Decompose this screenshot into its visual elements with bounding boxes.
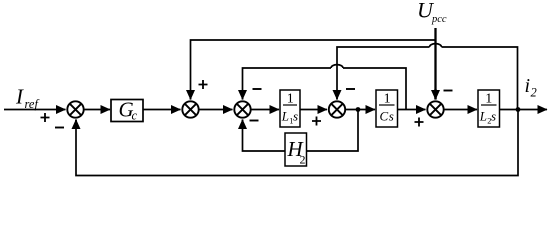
- wire Upcc branch top line to S2: [191, 40, 436, 100]
- svg-text:pcc: pcc: [431, 14, 447, 25]
- summing junction S4: [329, 101, 345, 117]
- wire S4 to Cs with node: [346, 109, 375, 111]
- sign - at S3 top: [253, 88, 262, 90]
- sign - at S3 bottom: [250, 120, 259, 122]
- svg-text:1: 1: [287, 92, 294, 107]
- svg-text:ref: ref: [25, 97, 40, 111]
- node after S4: [356, 107, 361, 112]
- wire input Iref to S1: [4, 109, 66, 111]
- wire L2s to output i2: [500, 109, 548, 111]
- node i2: [516, 107, 521, 112]
- block 1/Cs: [376, 90, 398, 127]
- hop over Upcc vertical: [430, 44, 442, 47]
- svg-text:2: 2: [531, 86, 537, 100]
- wire H2 loop from node to H2 and S3 bottom: [243, 110, 359, 152]
- block 1/L1s: [280, 90, 300, 127]
- block 1/L2s: [478, 90, 500, 127]
- sign - at S1 bottom: [55, 127, 64, 129]
- sign + at S1 left: [41, 113, 50, 122]
- wire L1s to S4: [300, 109, 327, 111]
- svg-text:1: 1: [485, 92, 492, 107]
- wire i2 feedback line A to S4 top: [337, 47, 518, 110]
- sign + at S5 left: [415, 118, 424, 127]
- sign + at S4 left: [312, 117, 321, 126]
- svg-text:2: 2: [300, 153, 306, 167]
- svg-text:C: C: [380, 109, 389, 124]
- svg-text:s: s: [491, 109, 496, 124]
- wire Upcc vertical to S5: [434, 28, 436, 100]
- wire S3 to block L1s: [252, 109, 280, 111]
- svg-text:L: L: [281, 109, 289, 124]
- svg-text:I: I: [15, 85, 24, 109]
- svg-text:c: c: [132, 109, 138, 123]
- sign - at S5 top: [444, 90, 453, 92]
- hop of line B over S4 vertical: [331, 65, 343, 68]
- svg-text:L: L: [479, 109, 487, 124]
- wire S5 to L2s: [445, 109, 478, 111]
- summing junction S1: [67, 101, 83, 117]
- wire Gc to S2: [143, 109, 181, 111]
- svg-text:1: 1: [384, 92, 391, 107]
- wire bottom feedback i2 to S1: [76, 110, 518, 176]
- svg-text:i: i: [525, 75, 531, 97]
- wire S1 to Gc: [85, 109, 111, 111]
- sign - at S4 top: [346, 88, 355, 90]
- block Gc: [111, 98, 143, 123]
- summing junction S3: [234, 101, 250, 117]
- wire S2 to S3: [200, 109, 233, 111]
- summing junction S5: [427, 101, 443, 117]
- svg-text:s: s: [389, 109, 394, 124]
- summing junction S2: [182, 101, 198, 117]
- sign + at S2 top: [199, 80, 208, 89]
- block H2: [285, 133, 307, 167]
- wire uc feedback line B to S3 top: [243, 68, 407, 110]
- wire Cs to S5: [398, 109, 426, 111]
- svg-text:s: s: [293, 109, 298, 124]
